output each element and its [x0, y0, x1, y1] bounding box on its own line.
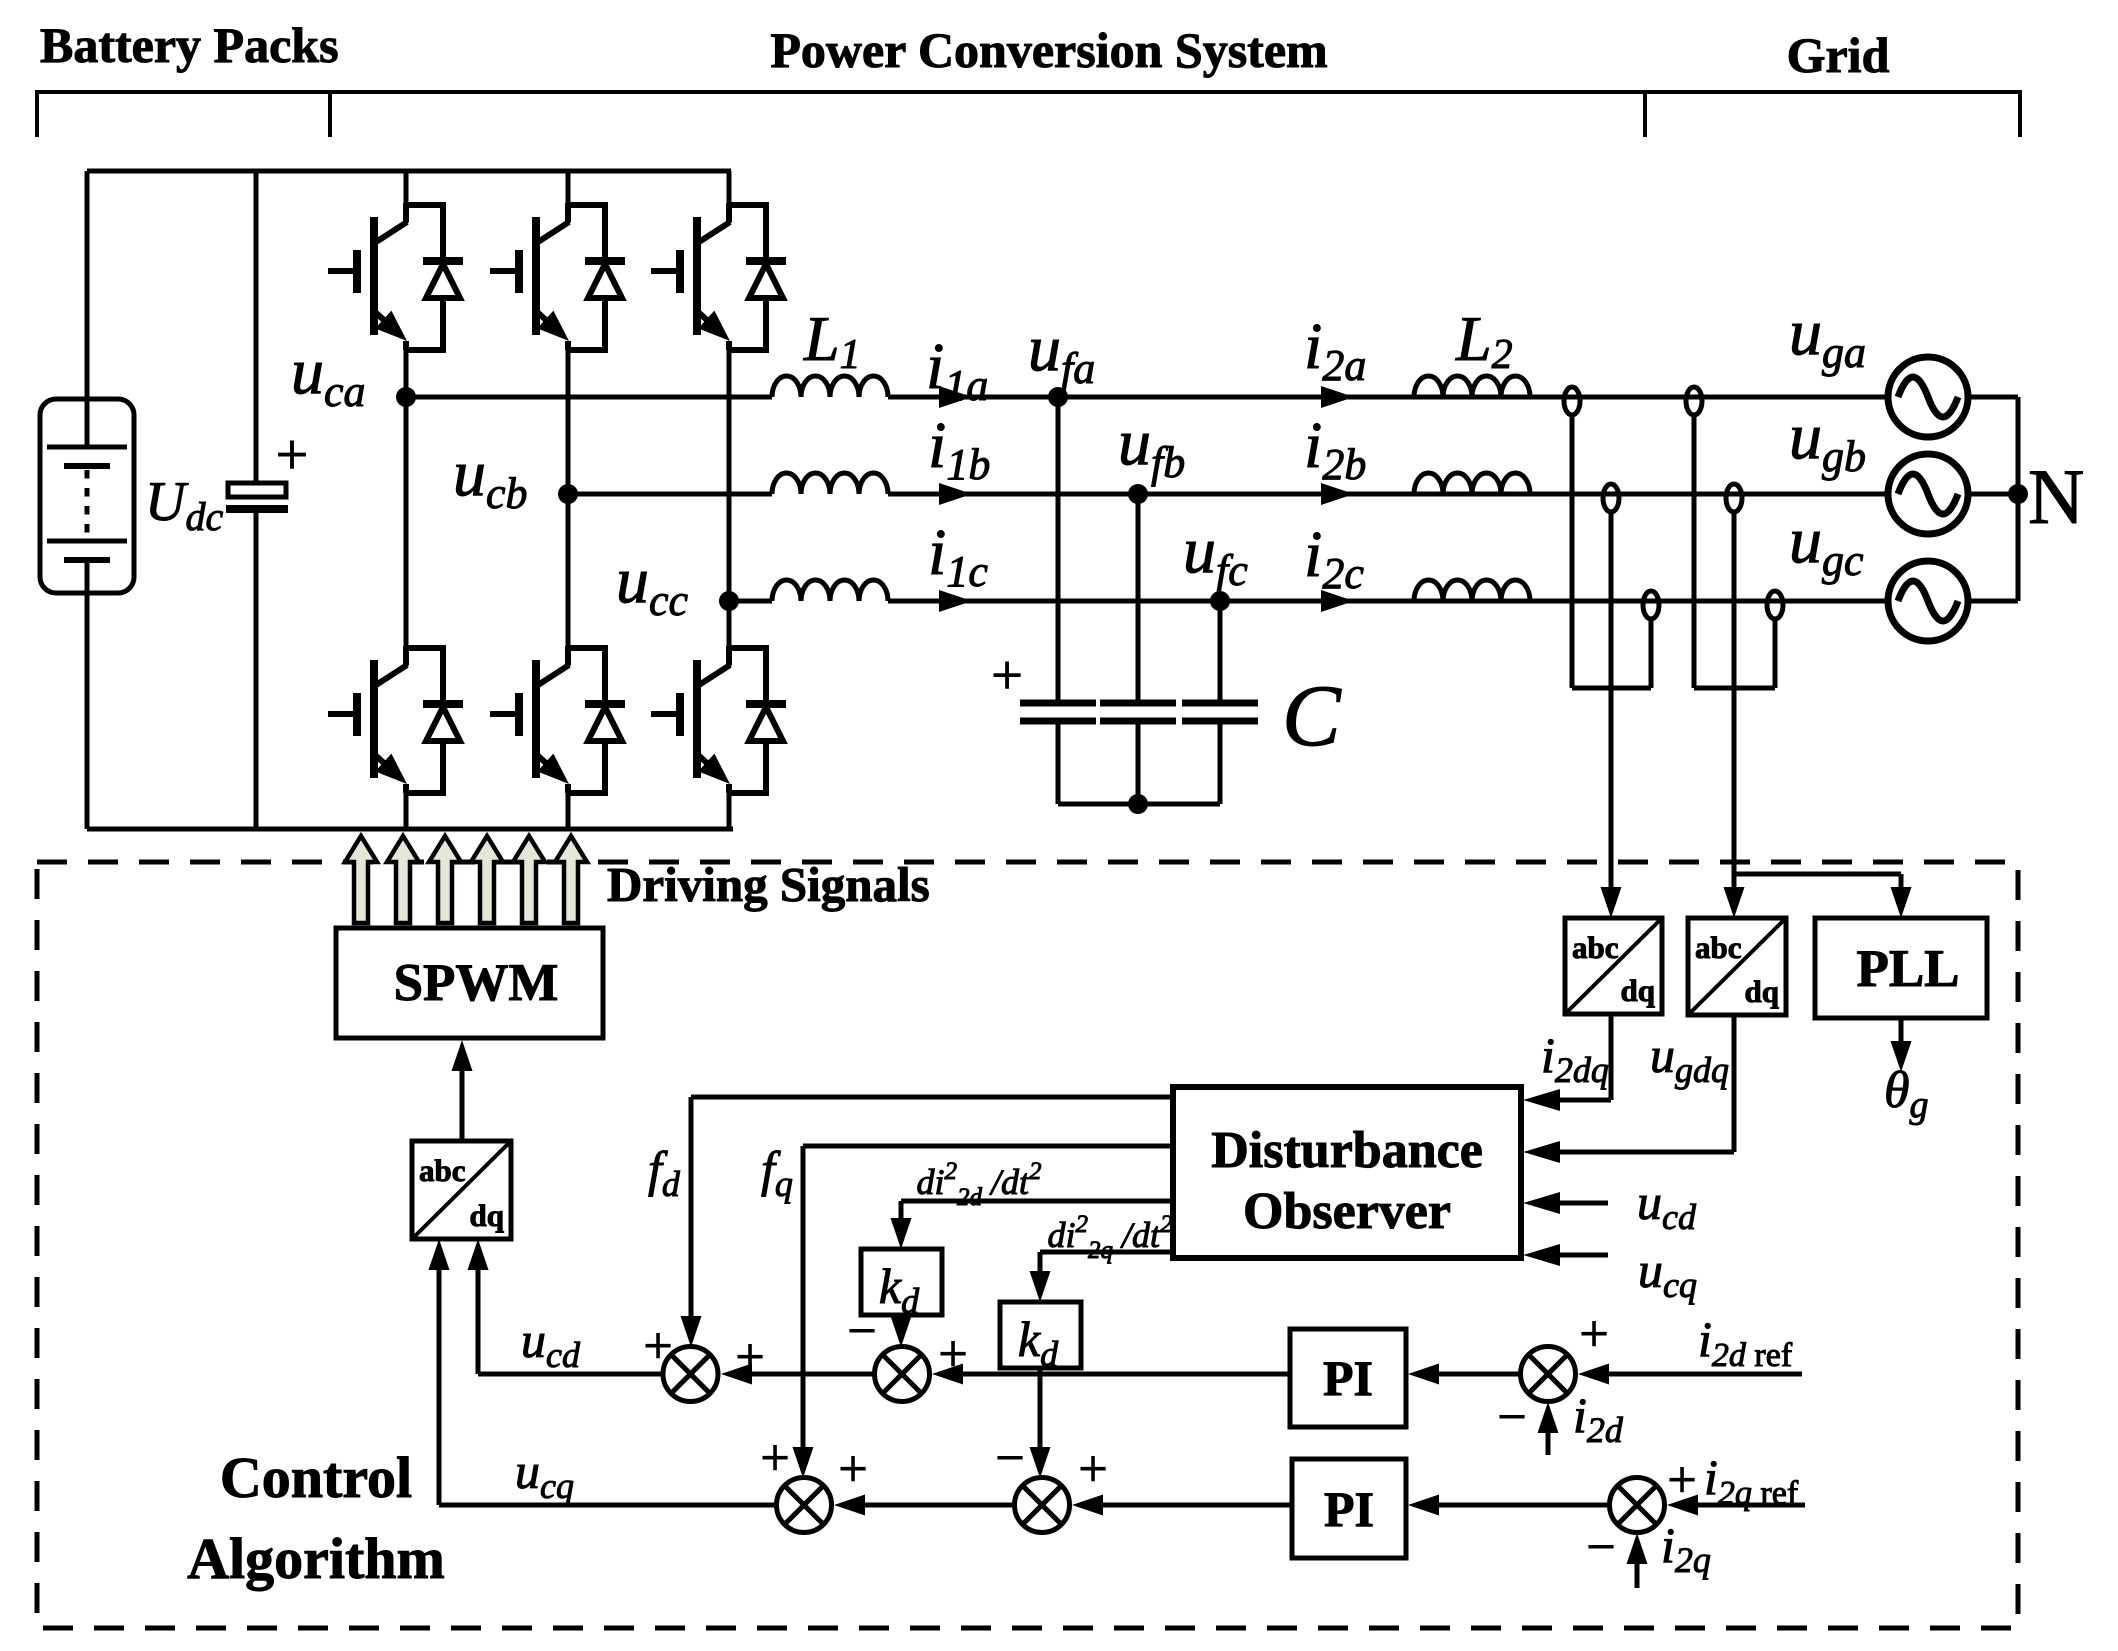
wire: u_cq input to observer — [1523, 1244, 1608, 1266]
wire: S_kdq to S_ucq — [834, 1495, 1014, 1516]
svg-text:Driving Signals: Driving Signals — [607, 857, 930, 912]
inductor L2 phase b — [1414, 473, 1530, 494]
transistor Q1 (top IGBT with antiparallel diode, phase a) — [328, 203, 463, 350]
node u_fb (junction dot) — [1128, 484, 1148, 504]
svg-text:N: N — [2028, 453, 2084, 540]
wire: i_2 sensing bracket — [1572, 686, 1651, 691]
AC source u_ga (grid phase a) — [1888, 357, 1968, 437]
svg-text:+: + — [991, 645, 1023, 707]
label f_q — [761, 1141, 793, 1204]
label i_2d (feedback) — [1573, 1387, 1624, 1450]
block abc/dq (control transform) — [412, 1141, 511, 1239]
sensor tap (voltage u_g) phase b — [1726, 484, 1742, 512]
wire: i_2d ref input — [1578, 1364, 1802, 1385]
wire: S_i2d to PI d — [1408, 1364, 1520, 1385]
wire: DC bus negative rail — [87, 827, 733, 832]
summing junction S_i2d — [1521, 1347, 1576, 1402]
transistor Q5 (top IGBT with antiparallel diode, phase c) — [651, 203, 786, 350]
svg-text:+: + — [1078, 1441, 1107, 1498]
svg-text:ucb: ucb — [453, 437, 528, 518]
svg-text:ucd: ucd — [521, 1312, 581, 1375]
label u_fc — [1183, 514, 1248, 595]
svg-text:−: − — [1586, 1519, 1615, 1576]
block PI (d-axis) — [1290, 1329, 1406, 1427]
node N (neutral junction dot) — [2008, 484, 2028, 504]
section title: Grid — [1787, 27, 1890, 83]
label u_cq (command) — [515, 1443, 574, 1506]
wire: leg a vertical segments — [404, 171, 409, 829]
svg-text:+: + — [760, 1430, 789, 1487]
wire: i_2dq output to Disturbance Observer — [1523, 1014, 1611, 1111]
svg-text:C: C — [1282, 668, 1342, 765]
label Driving Signals — [607, 857, 930, 912]
svg-text:−: − — [995, 1430, 1024, 1487]
node u_fc (junction dot) — [1210, 591, 1230, 611]
block abc/dq (i_2 transform) — [1565, 918, 1662, 1014]
svg-text:Battery Packs: Battery Packs — [40, 17, 339, 73]
label u_gb — [1789, 400, 1866, 481]
svg-text:ufc: ufc — [1183, 514, 1248, 595]
capacitor C phase b (filter) — [1100, 494, 1176, 804]
capacitor C phase a (filter) — [1020, 397, 1096, 804]
svg-text:PI: PI — [1323, 1350, 1373, 1406]
inductor L2 phase c — [1414, 580, 1530, 601]
svg-text:Power Conversion System: Power Conversion System — [770, 22, 1327, 78]
wire: phase c grid source to neutral bus — [1962, 599, 2018, 604]
svg-text:abc: abc — [1695, 930, 1742, 965]
svg-text:i2c: i2c — [1304, 518, 1364, 598]
label Algorithm — [187, 1526, 445, 1591]
label u_ga — [1789, 296, 1866, 377]
label L_2 — [1455, 303, 1513, 378]
label i_2q ref — [1704, 1449, 1799, 1512]
svg-text:Disturbance: Disturbance — [1211, 1122, 1483, 1179]
svg-text:i2q: i2q — [1661, 1517, 1711, 1580]
labels: summer plus/minus signs — [643, 1303, 1696, 1576]
wire: u_g sensing column phase c — [1773, 617, 1778, 688]
label di2_2q/dt2 — [1047, 1211, 1172, 1264]
svg-text:i2dq: i2dq — [1541, 1027, 1609, 1090]
AC source u_gb (grid phase b) — [1888, 454, 1968, 534]
label i_2c — [1304, 518, 1364, 598]
label i_2a — [1304, 310, 1366, 390]
section title: Power Conversion System — [770, 22, 1327, 78]
wire: phase a segment inverter to L1 — [406, 395, 772, 400]
wire: phase c segment inverter to L1 — [729, 599, 772, 604]
block Disturbance Observer — [1173, 1087, 1521, 1258]
wire: u_cd riser into abc/dq — [468, 1239, 489, 1374]
svg-text:ucq: ucq — [1638, 1242, 1697, 1305]
arrow i_2c current direction — [1321, 590, 1354, 612]
wire: f_q net — [793, 1146, 1174, 1478]
svg-text:abc: abc — [1572, 930, 1619, 965]
label i_1a — [926, 330, 988, 410]
svg-text:+: + — [838, 1441, 867, 1498]
svg-text:Algorithm: Algorithm — [187, 1526, 445, 1591]
wire: grid neutral bus — [2016, 397, 2021, 601]
driving signal arrow 4 (SPWM gate pulse) — [471, 836, 503, 923]
wire: f_d net — [681, 1097, 1174, 1347]
wire: PLL output theta_g — [1891, 1018, 1912, 1072]
sensor tap (voltage u_g) phase a — [1686, 387, 1702, 415]
svg-text:i1b: i1b — [928, 409, 990, 489]
wire: u_cq riser into abc/dq — [429, 1239, 450, 1505]
label PLL — [1856, 940, 1959, 998]
svg-text:i2a: i2a — [1304, 310, 1366, 390]
wire: di2_2d/dt2 net — [891, 1201, 1174, 1249]
wire: i_2q ref input — [1667, 1495, 1805, 1516]
svg-text:dq: dq — [470, 1198, 504, 1233]
bracket under titles — [37, 90, 2020, 137]
label di2_2d/dt2 — [916, 1158, 1041, 1211]
wire: leg c vertical segments — [727, 171, 732, 829]
label u_cc — [616, 544, 689, 625]
label u_ca — [291, 335, 366, 416]
svg-text:fd: fd — [648, 1141, 681, 1204]
transistor Q4 (bottom IGBT with antiparallel diode, phase b) — [490, 646, 625, 793]
wire: i_2 sensing column phase c — [1649, 617, 1654, 688]
svg-text:i1a: i1a — [926, 330, 988, 410]
arrow i_1a current direction — [939, 386, 972, 408]
wire: i_2d feedback — [1538, 1402, 1559, 1455]
svg-text:Observer: Observer — [1243, 1183, 1451, 1240]
block PLL — [1815, 918, 1987, 1018]
wire: phase c segment L1 to grid source — [888, 599, 1894, 604]
AC source u_gc (grid phase c) — [1888, 561, 1968, 641]
wire: i_2 sensing column phase b (to abc/dq) — [1601, 512, 1622, 918]
block abc/dq (u_g transform) — [1688, 918, 1786, 1015]
inductor L1 phase a — [772, 376, 888, 397]
label u_fb — [1118, 406, 1185, 487]
svg-text:θg: θg — [1884, 1062, 1929, 1126]
label k_d (q-axis) — [1018, 1311, 1059, 1374]
driving signal arrow 3 (SPWM gate pulse) — [429, 836, 461, 923]
wire: phase a grid source to neutral bus — [1962, 395, 2018, 400]
svg-text:uca: uca — [291, 335, 366, 416]
svg-text:L1: L1 — [803, 303, 861, 378]
label u_cb — [453, 437, 528, 518]
wire: phase b grid source to neutral bus — [1962, 492, 2018, 497]
wire: S_i2q to PI q — [1408, 1495, 1609, 1516]
summing junction S_kdq — [1015, 1478, 1070, 1533]
dashed box: Control Algorithm boundary — [37, 862, 2018, 1628]
svg-text:i2d ref: i2d ref — [1698, 1311, 1793, 1374]
label u_fa — [1028, 312, 1095, 393]
svg-text:+: + — [1667, 1452, 1696, 1509]
label U_dc — [145, 471, 223, 539]
label + (DC link polarity) — [276, 422, 309, 487]
wire: k_d q-axis output — [1030, 1368, 1051, 1478]
svg-text:i2q ref: i2q ref — [1704, 1449, 1799, 1512]
node: capacitor bank neutral junction — [1128, 794, 1148, 814]
driving signal arrow 6 (SPWM gate pulse) — [555, 836, 587, 923]
wire: branch to PLL — [1734, 874, 1912, 918]
label + (filter cap polarity) — [991, 645, 1023, 707]
wire: capacitor bank bottom bus — [1058, 802, 1220, 807]
svg-text:PLL: PLL — [1856, 940, 1959, 998]
wire: i_2q feedback — [1627, 1533, 1648, 1588]
wire: u_g sensing column phase a — [1692, 415, 1697, 688]
svg-text:+: + — [1579, 1306, 1608, 1363]
summing junction S_ucq — [777, 1478, 832, 1533]
wire: u_g sensing bracket — [1694, 686, 1775, 691]
inductor L1 phase b — [772, 473, 888, 494]
label u_cq (observer input) — [1638, 1242, 1697, 1305]
wire: u_cd input to observer — [1523, 1192, 1608, 1214]
svg-text:+: + — [276, 422, 309, 487]
label theta_g — [1884, 1062, 1929, 1126]
sensor tap (current i_2) phase a — [1564, 387, 1580, 415]
svg-text:uga: uga — [1789, 296, 1866, 377]
label i_1b — [928, 409, 990, 489]
wire: abc/dq to SPWM — [452, 1040, 473, 1141]
wire: q-axis u_cq line (summer to riser) — [439, 1503, 776, 1508]
label Observer — [1243, 1183, 1451, 1240]
label i_2dq — [1541, 1027, 1609, 1090]
section title: Battery Packs — [40, 17, 339, 73]
transistor Q3 (top IGBT with antiparallel diode, phase b) — [490, 203, 625, 350]
wire: S_kdd to S_ucd — [721, 1364, 874, 1385]
svg-text:Udc: Udc — [145, 471, 223, 539]
svg-text:SPWM: SPWM — [394, 954, 559, 1012]
svg-text:ufa: ufa — [1028, 312, 1095, 393]
capacitor C phase c (filter) — [1182, 601, 1258, 804]
label i_2q (feedback) — [1661, 1517, 1711, 1580]
svg-text:dq: dq — [1745, 974, 1779, 1009]
wire: DC bus positive rail — [87, 169, 731, 174]
svg-text:i2d: i2d — [1573, 1387, 1624, 1450]
driving signal arrow 2 (SPWM gate pulse) — [387, 836, 419, 923]
wire: phase b segment L1 to grid source — [888, 492, 1894, 497]
label i_2d ref — [1698, 1311, 1793, 1374]
summing junction S_kdd — [875, 1347, 930, 1402]
label L_1 — [803, 303, 861, 378]
node u_ca (junction dot) — [396, 387, 416, 407]
wire: u_gdq output to Disturbance Observer — [1523, 1015, 1734, 1163]
label u_cd (observer input) — [1637, 1174, 1697, 1237]
wire: leg b vertical segments — [566, 171, 571, 829]
svg-text:abc: abc — [419, 1153, 466, 1188]
block PI (q-axis) — [1292, 1459, 1406, 1558]
label u_gdq — [1650, 1027, 1729, 1090]
battery pack symbol (U_dc source) — [40, 171, 134, 829]
summing junction S_i2q — [1610, 1478, 1665, 1533]
svg-text:PI: PI — [1324, 1481, 1374, 1537]
arrow i_1c current direction — [939, 590, 972, 612]
label N — [2028, 453, 2084, 540]
sensor tap (voltage u_g) phase c — [1767, 591, 1783, 619]
svg-text:Grid: Grid — [1787, 27, 1890, 83]
svg-text:ugb: ugb — [1789, 400, 1866, 481]
wire: PI d out to S_kdd — [932, 1364, 1290, 1385]
svg-text:ufb: ufb — [1118, 406, 1185, 487]
driving signal arrow 1 (SPWM gate pulse) — [345, 836, 377, 923]
svg-text:−: − — [847, 1303, 876, 1360]
svg-text:ugc: ugc — [1789, 504, 1864, 585]
driving signal arrow 5 (SPWM gate pulse) — [513, 836, 545, 923]
wire: d-axis u_cd line (summer to riser) — [478, 1372, 663, 1377]
label PI (q-axis) — [1324, 1481, 1374, 1537]
svg-text:ucd: ucd — [1637, 1174, 1697, 1237]
label u_cd (command) — [521, 1312, 581, 1375]
label i_2b — [1304, 409, 1366, 489]
arrow i_2b current direction — [1321, 483, 1354, 505]
arrow i_2a current direction — [1321, 386, 1354, 408]
svg-text:dq: dq — [1621, 973, 1655, 1008]
arrow i_1b current direction — [939, 483, 972, 505]
transistor Q6 (bottom IGBT with antiparallel diode, phase c) — [651, 646, 786, 793]
node u_cc (junction dot) — [719, 591, 739, 611]
transistor Q2 (bottom IGBT with antiparallel diode, phase a) — [328, 646, 463, 793]
block k_d (d-axis) — [861, 1249, 942, 1315]
wire: di2_2q/dt2 net — [1030, 1252, 1174, 1302]
label PI (d-axis) — [1323, 1350, 1373, 1406]
wire: u_g sensing column phase b (to abc/dq) — [1724, 512, 1745, 918]
block SPWM — [336, 928, 603, 1038]
node u_cb (junction dot) — [558, 484, 578, 504]
svg-text:−: − — [1497, 1389, 1526, 1446]
label k_d (d-axis) — [879, 1258, 920, 1321]
svg-text:+: + — [643, 1318, 672, 1375]
capacitor: DC link — [226, 171, 288, 829]
svg-text:ucq: ucq — [515, 1443, 574, 1506]
svg-text:+: + — [735, 1329, 764, 1386]
svg-text:di22q /dt2: di22q /dt2 — [1047, 1211, 1172, 1264]
label Control — [220, 1445, 412, 1510]
wire: k_d d-axis output — [891, 1315, 912, 1347]
label i_1c — [928, 516, 988, 596]
label SPWM — [394, 954, 559, 1012]
svg-text:ugdq: ugdq — [1650, 1027, 1729, 1090]
label C (filter capacitance) — [1282, 668, 1342, 765]
svg-text:i2b: i2b — [1304, 409, 1366, 489]
svg-text:+: + — [938, 1326, 967, 1383]
sensor tap (current i_2) phase c — [1643, 591, 1659, 619]
wire: i_2 sensing column phase a — [1570, 415, 1575, 688]
label Disturbance — [1211, 1122, 1483, 1179]
inductor L1 phase c — [772, 580, 888, 601]
svg-text:fq: fq — [761, 1141, 793, 1204]
wire: phase a segment L1 to grid source — [888, 395, 1894, 400]
svg-text:ucc: ucc — [616, 544, 689, 625]
wire: PI q out to S_kdq — [1072, 1495, 1292, 1516]
summing junction S_ucd — [663, 1347, 718, 1402]
sensor tap (current i_2) phase b — [1603, 484, 1619, 512]
label u_gc — [1789, 504, 1864, 585]
node u_fa (junction dot) — [1048, 387, 1068, 407]
block k_d (q-axis) — [1000, 1302, 1081, 1368]
svg-text:Control: Control — [220, 1445, 412, 1510]
svg-text:i1c: i1c — [928, 516, 988, 596]
label f_d — [648, 1141, 681, 1204]
svg-text:L2: L2 — [1455, 303, 1513, 378]
wire: phase b segment inverter to L1 — [568, 492, 772, 497]
inductor L2 phase a — [1414, 376, 1530, 397]
